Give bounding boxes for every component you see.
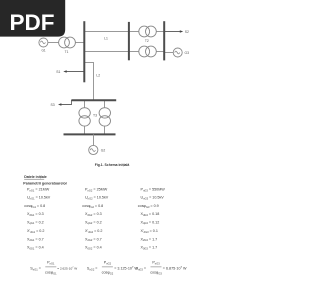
wire: L1 top line bus A to bus B xyxy=(85,31,128,33)
formula SnG1 xyxy=(30,260,77,275)
svg-text:T3: T3 xyxy=(93,114,97,118)
wire: L1 bottom line bus A to bus B xyxy=(85,51,128,53)
svg-text:G1: G1 xyxy=(41,49,45,53)
svg-text:G3: G3 xyxy=(185,51,190,55)
bus B (middle vertical busbar) xyxy=(128,22,130,60)
wire: S2 feeder from bus C with arrow xyxy=(164,31,181,33)
svg-text:Datele inițiale: Datele inițiale xyxy=(24,175,47,179)
wire: bus C to generator G3 xyxy=(164,52,178,54)
wire: L2 tap from bus A down to bus D xyxy=(85,63,94,101)
wire: generator G1 to transformer T1 to bus A xyxy=(43,42,84,44)
wire: S3 feeder from bus D with arrow xyxy=(60,100,72,105)
transformer T3 left unit xyxy=(79,108,90,126)
bus A (left vertical busbar) xyxy=(83,21,85,82)
formula SnG2 xyxy=(87,260,139,275)
PDF badge xyxy=(0,0,65,37)
wire: T3 right unit down to bus E xyxy=(104,126,106,135)
bus C (right vertical busbar) xyxy=(163,21,165,60)
bus E (lower horizontal busbar) xyxy=(64,133,116,135)
generator G2 xyxy=(89,145,98,154)
svg-text:Parametrii generatoarelor: Parametrii generatoarelor xyxy=(23,182,67,186)
wire: bus D down to T3 right unit xyxy=(104,100,106,108)
wire: T3 left unit down to bus E xyxy=(84,126,86,135)
svg-text:T1: T1 xyxy=(65,50,69,54)
svg-text:G2: G2 xyxy=(101,148,106,152)
bus D (upper horizontal busbar) xyxy=(71,99,116,101)
wire: bus D down to T3 left unit xyxy=(84,100,86,108)
svg-text:= 6.875·107 W: = 6.875·107 W xyxy=(163,265,187,270)
wire: T2 bottom stub bus B to circles and circles to bus C xyxy=(129,51,139,53)
transformer T2 top unit xyxy=(139,26,157,37)
transformer T2 bottom unit xyxy=(139,46,157,57)
generator G1 xyxy=(39,38,48,47)
svg-text:S2: S2 xyxy=(185,30,189,34)
parameter rows column G1 xyxy=(24,188,51,251)
svg-text:PDF: PDF xyxy=(10,10,55,35)
generator G3 xyxy=(173,48,182,57)
transformer T1 xyxy=(59,37,76,54)
svg-text:S1: S1 xyxy=(56,70,60,74)
svg-text:S3: S3 xyxy=(51,103,55,107)
page background xyxy=(0,0,216,287)
svg-text:L2: L2 xyxy=(96,73,100,77)
svg-text:T2: T2 xyxy=(145,39,149,43)
wire: T2 top stub bus B to circles and circles to bus C xyxy=(129,31,139,33)
formula SnG3 xyxy=(136,260,188,275)
wire: S1 feeder from bus A with arrow xyxy=(66,71,85,73)
wire: bus E down to generator G2 xyxy=(93,134,95,145)
svg-text:Fig.1. Schema inițială: Fig.1. Schema inițială xyxy=(95,163,130,167)
svg-text:L1: L1 xyxy=(104,37,108,41)
transformer T3 right unit xyxy=(99,108,110,126)
parameter rows column G3 xyxy=(138,188,166,251)
parameter rows column G2 xyxy=(82,188,109,251)
svg-text:= 2.625·107 W: = 2.625·107 W xyxy=(57,266,77,270)
